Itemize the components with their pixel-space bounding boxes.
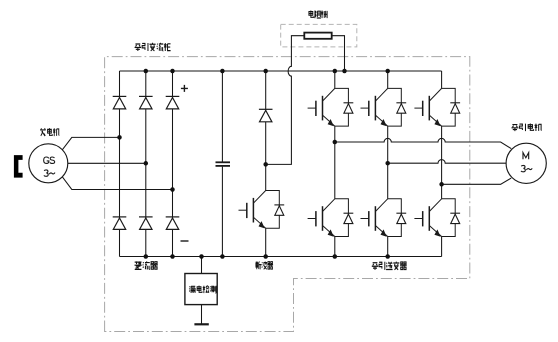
junction node top bus / chopper [263,69,268,74]
generator phase wire top [62,137,119,149]
inverter leg3 lower emitter to bus [441,237,443,257]
inverter leg2 collector from bus [387,71,389,88]
capacitor C plates [216,162,231,166]
inverter IGBT lower leg1 [308,199,354,237]
inverter IGBT lower leg3 [414,199,460,237]
junction node bottom bus / leakage detector [199,254,204,259]
inverter leg2 lower collector [387,163,389,199]
junction node bottom bus / inverter leg1 [333,254,338,259]
ground bar [194,323,208,325]
inverter IGBT upper leg1 [308,88,354,126]
brake resistor left wire with hop over bus [266,36,305,165]
rectifier upper diode leg1 [113,96,127,109]
label 斩波器 (chopper) [256,261,274,269]
generator GS circle [29,144,68,183]
junction node generator phase B [144,161,149,166]
junction node bottom bus / capacitor [220,254,225,259]
phase1 line with hops to motor [335,138,511,148]
junction node top bus / brake resistor [342,69,347,74]
bottom DC bus [120,256,442,258]
inverter leg3 upper emitter to phase3 crossing phase1 phase2 [441,126,443,184]
inverter leg1 lower collector [334,142,336,199]
phase2 line with hop to motor [388,160,507,164]
leakage detector wire from bus [201,257,203,274]
label 牵引逆变器 (traction inverter) [372,262,407,270]
chopper emitter wire [265,228,267,256]
rectifier leg 2 [145,71,147,257]
junction node generator phase A [117,135,122,140]
capacitor leg wire [221,71,223,257]
inverter leg1 collector from bus [334,71,336,88]
junction node bottom bus / chopper [263,254,268,259]
junction node inverter phase W [439,182,444,187]
inverter leg3 lower collector [441,184,443,199]
generator phase wire bottom [62,177,172,190]
brake resistor body [304,33,331,39]
junction node chopper / brake resistor [263,162,268,167]
label 发电机 (generator) [40,128,59,136]
leakage detection box [185,274,217,305]
brake resistor right wire [332,36,345,71]
junction node inverter phase V [385,161,390,166]
inverter IGBT upper leg3 [414,88,460,126]
chopper leg top wire [265,71,267,191]
label 整流器 (rectifier) [135,261,158,269]
inverter leg3 collector from bus [441,71,443,88]
rectifier lower diode leg1 [113,217,127,230]
rectifier lower diode leg2 [139,217,153,230]
junction node generator phase C [170,187,175,192]
junction node bottom bus / rectifier leg3 [170,254,175,259]
label 牵引变流柜 (traction converter cabinet) [135,43,171,51]
junction node inverter phase U [333,140,338,145]
leakage detector ground wire [201,305,203,325]
inverter leg1 lower emitter to bus [334,237,336,257]
cabinet dashed border 牵引变流柜 [105,57,470,332]
plus sign [181,85,188,92]
phase3 line to motor [442,178,512,184]
inverter leg1 upper emitter to phase1 [334,126,336,142]
rectifier upper diode leg2 [139,96,153,109]
junction node top bus / capacitor [220,69,225,74]
label 电阻栅 (braking resistor grid) [309,10,328,18]
minus sign [181,240,189,242]
junction node top bus / inverter leg1 [333,69,338,74]
shaft coupling bracket [14,155,23,178]
resistor grid dashed gray box [281,24,357,47]
motor M circle [506,143,546,183]
top DC bus [120,70,442,72]
chopper freewheel diode on leg [259,109,273,122]
rectifier leg 3 [172,71,174,257]
label 牵引电机 (traction motor) [511,124,541,132]
inverter leg2 lower emitter to bus [387,237,389,257]
inverter IGBT lower leg2 [361,199,407,237]
inverter IGBT upper leg2 [361,88,407,126]
junction node top bus / rectifier leg2 [144,69,149,74]
junction node top bus / inverter leg2 [385,69,390,74]
rectifier upper diode leg3 [166,96,180,109]
rectifier leg 1 [119,71,121,257]
generator phase wire middle [68,162,146,164]
inverter leg2 upper emitter to phase2 crossing phase1 [387,126,389,163]
chopper IGBT [239,191,285,229]
rectifier lower diode leg3 [166,217,180,230]
label 漏电检测 (leakage detection) [189,286,216,294]
junction node top bus / rectifier leg3 [170,69,175,74]
junction node bottom bus / rectifier leg2 [144,254,149,259]
junction node bottom bus / inverter leg2 [385,254,390,259]
